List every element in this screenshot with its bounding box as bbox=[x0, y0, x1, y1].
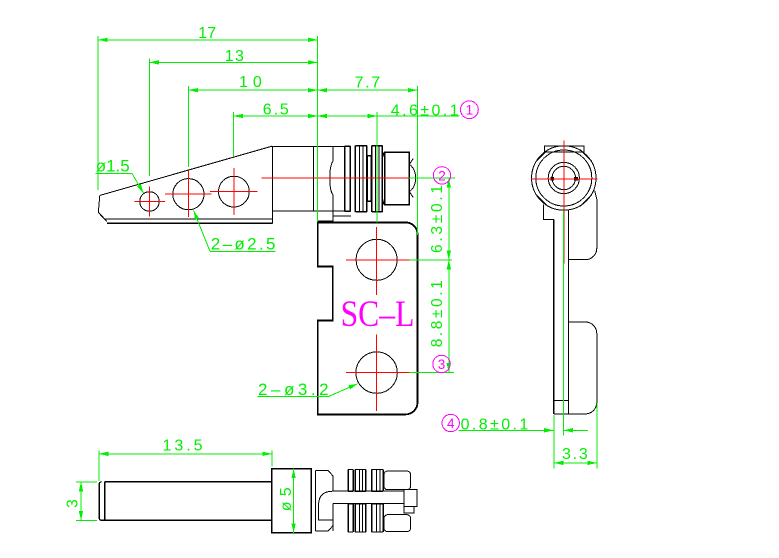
svg-text:4: 4 bbox=[447, 416, 455, 431]
svg-text:ø1.5: ø1.5 bbox=[96, 156, 130, 175]
svg-text:SC–L: SC–L bbox=[341, 294, 415, 335]
svg-text:1: 1 bbox=[466, 103, 474, 118]
svg-text:3.3: 3.3 bbox=[562, 446, 588, 463]
svg-text:3: 3 bbox=[65, 499, 82, 508]
svg-text:3: 3 bbox=[438, 357, 446, 372]
svg-text:6.5: 6.5 bbox=[263, 102, 289, 119]
svg-text:7.7: 7.7 bbox=[355, 75, 381, 92]
svg-text:13: 13 bbox=[225, 48, 244, 65]
svg-text:2: 2 bbox=[438, 168, 446, 183]
svg-text:13.5: 13.5 bbox=[163, 438, 203, 455]
svg-text:17: 17 bbox=[198, 25, 216, 42]
